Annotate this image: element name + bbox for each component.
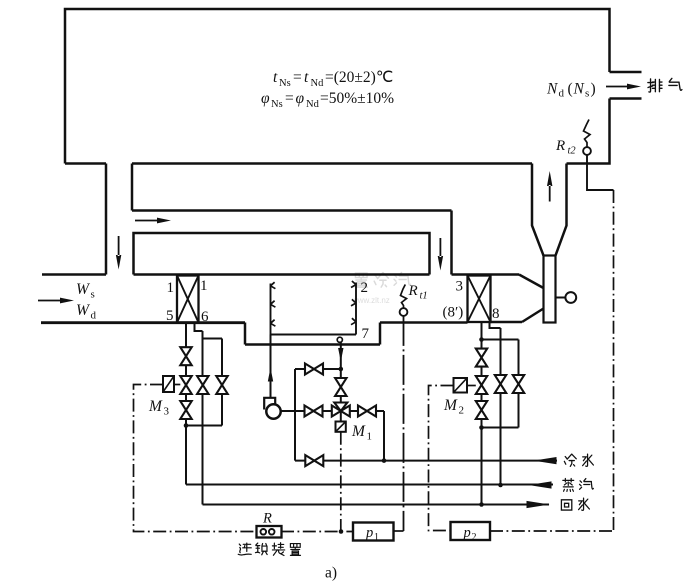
bypass left riser	[294, 369, 296, 461]
heater2 lower manifold	[482, 427, 519, 429]
node heater2 lower manifold	[479, 425, 484, 430]
arrow return channel	[135, 218, 171, 224]
actuator M2 stub	[467, 385, 476, 387]
spray main drop pipe	[340, 342, 342, 421]
valve spray main	[335, 378, 346, 396]
spray nozzle R3	[351, 318, 356, 325]
pump circle	[266, 404, 280, 418]
return channel rect1 bottom edge	[132, 209, 452, 212]
heater2 outlet step pipe	[490, 322, 501, 328]
spray nozzle L2	[271, 301, 276, 308]
fresh-air duct top wall left	[42, 273, 106, 276]
valve heater2 top	[476, 349, 487, 367]
room bottom edge centre segment	[132, 162, 532, 165]
svg-text:Nd: Nd	[311, 78, 325, 89]
svg-text:Ns: Ns	[271, 99, 283, 110]
M1 control line	[340, 432, 342, 532]
supply duct rect2 bottom edge	[134, 273, 430, 276]
spray nozzle L1	[271, 282, 276, 289]
relay contact circle left	[261, 529, 267, 535]
svg-text:): )	[591, 81, 596, 98]
sump right step	[379, 323, 382, 345]
label 排气 exhaust air	[648, 79, 662, 92]
valve heater1 top	[180, 347, 191, 365]
arrow right channel down	[438, 238, 443, 271]
exhaust stub bottom wall	[610, 97, 642, 100]
svg-text:2: 2	[472, 532, 477, 543]
room right wall lower segment	[567, 99, 610, 164]
heat exchanger 2 cross	[468, 276, 491, 323]
valve heater2 bypass	[513, 375, 524, 393]
svg-text:p: p	[365, 525, 373, 541]
svg-text:N: N	[573, 81, 586, 98]
supply duct rect2	[134, 233, 430, 275]
fan motor circle	[565, 292, 576, 303]
fan inlet cone top diagonal	[519, 275, 544, 289]
svg-text:R: R	[262, 511, 272, 527]
svg-text:(8′): (8′)	[443, 305, 464, 321]
Rt2 sensor stem	[587, 155, 614, 190]
arrowhead steam	[529, 481, 552, 488]
pump volute	[264, 398, 275, 410]
svg-text:W: W	[76, 302, 91, 319]
spray pipe left	[270, 284, 272, 399]
sensor Rt1 bulb circle	[400, 308, 408, 316]
actuator M1	[336, 422, 346, 432]
valve three-way right	[358, 406, 376, 417]
valve M3 controlled	[180, 376, 191, 394]
relay contact circle right	[269, 529, 275, 535]
svg-text:1: 1	[367, 431, 373, 443]
heater1 lower manifold	[186, 425, 222, 427]
upper bypass line	[295, 368, 341, 370]
room chamber outline (top rectangle)	[65, 9, 610, 164]
sump floor	[245, 343, 380, 346]
node heater1 manifold	[184, 423, 189, 428]
label 连锁装置 interlock device	[238, 543, 251, 555]
node bypass top	[339, 367, 344, 372]
sensor Rt1 zigzag	[401, 285, 407, 309]
fresh air duct bottom wall	[41, 321, 245, 324]
arrow exhaust	[606, 84, 641, 90]
valve heater1 condensate	[197, 376, 208, 394]
svg-text:Ns: Ns	[279, 78, 291, 89]
valve heater2 lower	[476, 401, 487, 419]
svg-text:M: M	[148, 398, 163, 415]
return channel rect1 left edge	[131, 164, 134, 211]
valve upper bypass	[305, 364, 323, 375]
chilled water line	[295, 460, 557, 462]
spray nozzle L3	[271, 320, 276, 327]
svg-text:R: R	[555, 138, 565, 154]
right port drop to chilled water	[383, 411, 385, 461]
sensor Rt2 bulb circle	[583, 147, 591, 155]
label 蒸汽 steam	[563, 478, 574, 491]
heat exchanger box 2 (air heater 2)	[468, 276, 491, 323]
controller box p2	[451, 522, 491, 540]
svg-text:3: 3	[164, 406, 170, 418]
actuator M3 stub	[174, 384, 180, 386]
svg-text:=: =	[293, 69, 302, 86]
svg-text:t: t	[304, 69, 309, 86]
fan discharge duct left wall	[532, 164, 544, 256]
valve heater1 bypass	[216, 376, 227, 394]
node interlock M1 join	[339, 529, 344, 534]
M2 control line	[429, 386, 454, 531]
valve pump discharge	[305, 406, 323, 417]
svg-text:=: =	[285, 90, 294, 107]
Rt1 to p1 connection	[394, 530, 404, 532]
node chilled water join	[382, 458, 387, 463]
spray nozzle R1	[351, 281, 356, 288]
svg-text:8: 8	[492, 306, 500, 322]
p2 to Rt2 trunk connection	[490, 530, 614, 532]
fan casing	[544, 256, 556, 323]
svg-text:=50%±10%: =50%±10%	[320, 90, 394, 107]
svg-text:1: 1	[374, 532, 379, 543]
svg-text:www.zlt.nz: www.zlt.nz	[351, 296, 390, 305]
svg-text:s: s	[585, 88, 589, 100]
heat exchanger box 1 (air heater 1)	[177, 276, 199, 323]
watermark faint	[351, 272, 410, 305]
heater1 upper manifold	[203, 338, 223, 340]
heater2 main pipe	[481, 322, 483, 505]
fan discharge duct right wall	[556, 164, 567, 256]
spray nozzle R2	[351, 299, 356, 306]
arrow pump riser up	[268, 368, 273, 382]
svg-text:W: W	[76, 281, 91, 298]
three-way mixing valve M1	[332, 403, 350, 417]
steam supply line to label	[186, 484, 553, 486]
svg-text:3: 3	[456, 279, 464, 295]
svg-text:7: 7	[362, 326, 370, 342]
valve heater1 lower	[180, 401, 191, 419]
interlock line R to p1	[281, 531, 353, 533]
duct bottom edge under heater 2	[380, 321, 468, 324]
room bottom edge left segment	[65, 162, 106, 165]
svg-text:φ: φ	[296, 90, 305, 107]
arrowhead chilled water	[534, 457, 557, 464]
svg-text:d: d	[559, 88, 565, 100]
svg-text:1: 1	[200, 278, 208, 294]
sensor Rt2 zigzag	[584, 120, 591, 148]
svg-text:t2: t2	[568, 146, 577, 157]
heater1 outlet step pipe	[195, 323, 203, 332]
svg-text:6: 6	[201, 309, 209, 325]
svg-text:d: d	[91, 310, 97, 322]
duct bottom edge heater2 to fan	[491, 321, 523, 324]
svg-text:t: t	[273, 69, 278, 86]
node return water join	[479, 502, 484, 507]
spray pipe right	[355, 283, 357, 335]
svg-text:a): a)	[325, 565, 337, 582]
arrow fan discharge up	[547, 171, 552, 202]
heater2 bypass pipe	[518, 340, 520, 428]
svg-text:M: M	[443, 397, 458, 414]
heater2 steam branch pipe	[500, 328, 502, 485]
sump left step	[244, 323, 247, 345]
heater1 condensate pipe	[202, 331, 204, 505]
svg-text:(: (	[568, 81, 573, 98]
recirculation duct left wall	[105, 164, 108, 275]
dividing wall right of rect2	[450, 211, 453, 275]
svg-text:Nd: Nd	[306, 99, 320, 110]
label 冷水 chilled water	[564, 454, 576, 466]
svg-text:M: M	[351, 423, 366, 440]
pump suction pipe	[270, 335, 272, 399]
sump drain circle	[337, 337, 342, 342]
svg-text:t1: t1	[420, 291, 428, 302]
node heater2 upper manifold	[479, 337, 484, 342]
svg-text:φ: φ	[261, 90, 270, 107]
svg-text:=(20±2)℃: =(20±2)℃	[325, 69, 393, 86]
M3 control line	[134, 385, 258, 532]
fan motor stub	[556, 297, 566, 299]
Rt2 control trunk	[613, 190, 615, 531]
pump discharge line	[280, 410, 341, 412]
heater1 main steam pipe	[185, 323, 187, 485]
actuator M2	[454, 378, 468, 393]
svg-text:5: 5	[166, 308, 174, 324]
heater2 upper manifold	[482, 339, 519, 341]
svg-text:s: s	[91, 289, 95, 301]
spray chamber floor	[271, 334, 357, 336]
svg-text:p: p	[463, 525, 471, 541]
fan inlet cone bottom diagonal	[522, 309, 544, 323]
actuator M3	[163, 376, 174, 392]
valve M2 controlled	[476, 376, 487, 394]
interlock relay box R	[257, 526, 282, 538]
three-way right port line	[341, 410, 384, 412]
exhaust stub top wall	[610, 71, 642, 74]
label 回水 return water	[561, 500, 571, 510]
controller box p1	[353, 523, 394, 541]
arrow recirculation down	[116, 236, 121, 270]
arrow drain down	[338, 348, 343, 362]
svg-text:1: 1	[167, 280, 175, 296]
heat exchanger 1 cross	[177, 276, 199, 323]
svg-text:N: N	[546, 81, 559, 98]
svg-text:2: 2	[459, 405, 465, 417]
Rt1 control line	[403, 316, 405, 531]
return water line to label	[203, 504, 550, 506]
valve lower bypass	[305, 455, 323, 466]
heater1 bypass pipe	[221, 339, 223, 426]
node steam line join	[498, 483, 503, 488]
duct top edge to heater 2	[452, 273, 520, 276]
arrow fresh air inlet	[38, 298, 74, 304]
valve heater2 steam branch	[495, 375, 506, 393]
arrowhead return water	[527, 501, 550, 508]
